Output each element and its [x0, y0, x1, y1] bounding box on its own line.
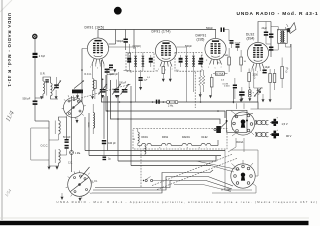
filament DL92 — [199, 143, 211, 149]
svg-text:DF91: DF91 — [162, 136, 169, 139]
gang link dashed 1 — [152, 154, 233, 186]
ground trimmer 2 — [115, 95, 118, 98]
coil IF2 tail — [193, 58, 194, 66]
volume control block — [213, 72, 228, 76]
ground grid cap — [110, 69, 117, 72]
twisted pair 2 — [256, 132, 269, 137]
ground below S2 right — [79, 196, 82, 201]
wire left column verticals to bundle — [85, 86, 131, 166]
socket GT rect outline — [225, 150, 252, 191]
tube DAF91 — [205, 38, 226, 64]
svg-text:C.C.: C.C. — [68, 163, 73, 165]
svg-text:(100pF): (100pF) — [133, 45, 142, 48]
svg-text:24µF: 24µF — [262, 27, 268, 30]
pin numbers DL92 — [251, 71, 265, 74]
svg-text:DK91 (1R5): DK91 (1R5) — [85, 26, 105, 30]
filament DAF91 — [180, 143, 192, 149]
ground above socket 1 — [240, 98, 243, 101]
capacitor aerial coil top — [45, 79, 49, 82]
svg-text:3: 3 — [165, 70, 166, 72]
svg-text:Ω: Ω — [286, 71, 288, 74]
handwriting 1/54 — [4, 188, 13, 198]
coil L1 aerial primary — [40, 72, 46, 94]
ground DF91 — [162, 79, 165, 82]
bottom caption — [57, 200, 319, 204]
label 100pF — [133, 45, 142, 48]
svg-text:DF91 (1T4): DF91 (1T4) — [152, 30, 171, 34]
wire socket2 right returns — [212, 150, 258, 193]
value label 50 — [156, 71, 159, 73]
svg-text:1 MΩ: 1 MΩ — [223, 55, 229, 57]
ground bias — [269, 99, 272, 102]
svg-text:3: 3 — [251, 71, 252, 73]
capacitor 500pF antenna — [23, 98, 38, 105]
capacitor 500pF DAF91 grid — [206, 27, 229, 41]
svg-text:UNDA RADIO - Mod. R 43-1: UNDA RADIO - Mod. R 43-1 — [7, 13, 12, 87]
svg-text:7: 7 — [221, 67, 222, 69]
coil padding label — [93, 64, 95, 96]
capacitor IF side right — [149, 55, 153, 67]
meter 1mA — [68, 96, 81, 172]
wire antenna mid — [34, 57, 36, 100]
value label 10K — [176, 70, 179, 72]
wire IF2 sec down — [193, 71, 195, 92]
wire IF1 pri down — [135, 71, 137, 102]
ground osc 1 — [48, 163, 51, 170]
handwriting 11/4 — [5, 109, 17, 123]
svg-text:1: 1 — [158, 69, 159, 71]
wire socket1 to socket2 link — [228, 138, 244, 152]
wire tuning gang dashed — [70, 84, 131, 101]
coil osc feed vertical — [87, 104, 94, 134]
capacitor rail bypass — [156, 100, 160, 104]
fuse 2Mohm inline — [167, 101, 179, 108]
tube DK91 — [87, 38, 108, 64]
label DL92 (3S4) — [246, 33, 254, 41]
trimmer arrow aerial — [53, 77, 61, 91]
wire DAF91 top cap — [215, 30, 218, 39]
svg-text:PA01A: PA01A — [236, 141, 244, 144]
label 500pF T2 — [185, 45, 192, 48]
wire filament chain — [138, 140, 218, 146]
svg-text:5: 5 — [215, 68, 216, 70]
label O.C.C. — [41, 145, 49, 148]
resistor 70 ohm — [281, 58, 289, 89]
svg-text:1: 1 — [208, 67, 209, 69]
resistor DF91 cathode — [162, 67, 165, 79]
wire top rail B+ — [98, 29, 216, 31]
svg-text:5: 5 — [257, 72, 258, 74]
svg-text:500pF: 500pF — [185, 45, 192, 48]
resistor bias pair 2 — [273, 69, 276, 90]
ground trimmer 1 — [101, 95, 104, 98]
coil hang below box — [145, 146, 146, 154]
capacitor above socket — [239, 87, 244, 98]
label DL92 heater — [202, 136, 209, 139]
label 0,5 M — [223, 84, 229, 86]
wire socket feeds — [233, 88, 258, 109]
svg-text:UNDA RADIO - Mod. R 43-1 -: UNDA RADIO - Mod. R 43-1 - Apparecchio p… — [57, 200, 319, 204]
svg-text:6: 6 — [104, 67, 105, 69]
core slug dark — [72, 81, 84, 94]
label GT17B6 — [221, 189, 232, 192]
svg-text:1,5 V: 1,5 V — [282, 122, 288, 126]
label DAF91 heater — [182, 136, 190, 139]
rotated margin text UNDA RADIO Mod R 43-1 — [7, 13, 12, 87]
wire DK91 top cap to rail — [97, 30, 99, 38]
svg-text:2 Hu.: 2 Hu. — [168, 105, 174, 108]
svg-text:(3S4): (3S4) — [247, 37, 255, 41]
ground above socket 2 — [248, 98, 251, 101]
coil IF winding 2 — [142, 52, 145, 71]
ground aerial coil — [40, 96, 43, 99]
svg-text:6: 6 — [263, 71, 264, 73]
coil IF winding 2 — [192, 52, 195, 71]
capacitor electrolytic right 2 — [269, 47, 273, 51]
label DF91 heater — [162, 136, 169, 139]
trimmer cap osc 3 — [119, 83, 129, 95]
ground output cap — [240, 94, 243, 102]
pickup contacts — [143, 177, 172, 182]
svg-text:50 TKA: 50 TKA — [216, 73, 224, 76]
svg-text:2: 2 — [90, 67, 91, 69]
svg-text:1 Ma.: 1 Ma. — [75, 153, 81, 155]
ground under S1 — [76, 118, 79, 124]
value label 0,1 — [147, 77, 151, 79]
coil IF winding 1 — [134, 52, 137, 71]
ground screen resistor — [117, 95, 120, 98]
resistor filament dropper — [134, 129, 140, 146]
wire DL92 top rail — [258, 22, 271, 43]
wire rail drop x115 — [109, 30, 116, 45]
ground det — [199, 94, 202, 97]
resistor screen dropper — [128, 44, 131, 70]
svg-text:90 V: 90 V — [286, 134, 292, 138]
svg-text:50 KpF: 50 KpF — [63, 137, 71, 139]
pin numbers DAF91 — [208, 67, 222, 70]
gang link dashed 2 — [157, 158, 238, 190]
rotary switch S1 — [62, 95, 86, 119]
ground AF — [209, 95, 212, 98]
label DK91 (1R5) — [85, 26, 105, 30]
wire DAF91 area drop — [201, 92, 226, 118]
svg-text:(1S5): (1S5) — [197, 38, 205, 42]
phone jack — [214, 122, 227, 133]
wire aerial coil leads — [35, 77, 58, 99]
label PA01A — [236, 141, 244, 144]
junction dot grid — [81, 69, 108, 71]
coil L4 osc — [55, 150, 60, 164]
svg-text:O.C.C.: O.C.C. — [84, 73, 92, 76]
svg-text:1µF: 1µF — [144, 80, 148, 82]
svg-text:O.C.C.: O.C.C. — [41, 145, 49, 148]
svg-text:500pF: 500pF — [117, 40, 125, 43]
ground DF91 pin — [169, 67, 172, 83]
pin numbers DF91 — [158, 69, 173, 72]
svg-text:m. Fz.: m. Fz. — [91, 180, 98, 183]
capacitor 500pF screen — [117, 30, 128, 51]
title top right — [237, 11, 319, 17]
svg-text:500pF: 500pF — [206, 27, 213, 30]
wire antenna lower — [35, 105, 49, 121]
coil L3 osc — [55, 121, 60, 135]
wire DL92 cathode drop — [254, 69, 263, 89]
svg-text:440 pF: 440 pF — [108, 142, 116, 145]
wire DK91 anode to IF1 — [109, 47, 136, 52]
resistor 1200 ohm — [248, 69, 259, 89]
capacitor IF side left — [179, 55, 183, 67]
capacitor 3u — [103, 157, 112, 161]
page corner fold — [0, 0, 12, 12]
ground aerial trim — [55, 90, 58, 99]
junction dots rails — [107, 101, 219, 120]
capacitor 440pF — [102, 140, 116, 156]
resistor DAF91 anode load — [223, 48, 230, 72]
capacitor det — [198, 61, 202, 65]
output transformer — [278, 29, 288, 43]
wire antenna down lead — [34, 39, 36, 53]
svg-text:4: 4 — [97, 68, 98, 70]
socket PA01A — [226, 111, 255, 136]
trimmer cap osc — [99, 79, 108, 95]
wire right column — [271, 22, 291, 110]
wire DK91 left column — [82, 49, 88, 103]
pin ticks DL92 — [252, 69, 264, 72]
resistor DAF91 screen — [240, 50, 247, 72]
resistor osc grid leak — [94, 81, 97, 100]
capacitor electrolytic right 1 — [269, 34, 273, 38]
socket GT17B6 — [231, 160, 255, 188]
capacitor osc tracking — [65, 145, 69, 149]
value label 25 — [217, 63, 220, 65]
wire IF2 pri down — [186, 71, 188, 102]
resistor AF grid — [202, 70, 205, 92]
svg-text:beep F: beep F — [107, 74, 114, 76]
tube DF91 — [155, 40, 176, 66]
trimmer cap osc 2 — [112, 80, 121, 95]
svg-text:100 pF: 100 pF — [119, 83, 127, 85]
tube DL92 — [247, 42, 268, 68]
label 90 V — [286, 134, 292, 138]
ground osc 2 — [56, 166, 59, 170]
wire right col to socket — [251, 108, 292, 110]
ground below S2 left — [61, 193, 64, 200]
wire mid rail 2 — [106, 75, 225, 118]
label O.C.C. 2 — [84, 73, 92, 76]
label DAF91 (1S5) — [196, 34, 207, 42]
wire rail drop x134 — [133, 30, 135, 50]
svg-text:DK91: DK91 — [142, 136, 149, 139]
svg-text:G.R.: G.R. — [40, 72, 46, 76]
capacitor 2Kpf — [33, 53, 46, 58]
capacitor 3KpF — [230, 40, 241, 48]
choke above socket — [249, 87, 255, 97]
ground pot — [262, 94, 265, 102]
wire mid rail 3 — [111, 80, 221, 124]
svg-text:DL92: DL92 — [202, 136, 209, 139]
svg-text:14µF: 14µF — [265, 66, 271, 69]
value label 0,5 — [221, 80, 225, 82]
twisted pair 1 — [256, 120, 269, 125]
socket PA01A rect — [227, 110, 247, 132]
ground AVC — [139, 87, 142, 90]
wire mid rail 1 — [102, 60, 259, 109]
punch hole dot — [114, 7, 122, 15]
IF transformer T2 dashed box — [175, 52, 202, 71]
resistor AF coupling — [210, 74, 213, 95]
coil L2 aerial secondary — [47, 81, 52, 96]
wire bottom nested rects — [92, 170, 234, 193]
filament DF91 — [159, 143, 171, 149]
wire DL92 anode to transformer — [266, 43, 271, 45]
pin ticks DK91 — [92, 64, 104, 67]
label 1,5 V — [282, 122, 288, 126]
capacitor 14uF cathode — [263, 66, 271, 73]
rotary switch S2 — [66, 167, 98, 198]
wire transformer leads — [271, 27, 291, 51]
label DK91 heater — [142, 136, 149, 139]
page left edge line — [1, 0, 3, 220]
potentiometer 450 ohm — [254, 88, 262, 97]
svg-text:DAF91: DAF91 — [182, 136, 190, 139]
wire IF1 bottom link — [119, 70, 132, 89]
coil IF winding 1 — [185, 52, 188, 71]
pin numbers DK91 — [90, 67, 105, 70]
filament DK91 — [139, 143, 151, 149]
capacitor AVC cluster — [139, 70, 148, 87]
capacitor coupling DL92 grid — [236, 44, 240, 51]
ground coil pad — [91, 96, 94, 99]
svg-text:500 pF: 500 pF — [23, 98, 31, 101]
plug 1,5V — [270, 117, 279, 127]
wire osc coil links — [49, 117, 67, 166]
svg-text:0.004: 0.004 — [224, 86, 230, 88]
resistor bias pair 1 — [269, 69, 272, 99]
wire DF91 top — [177, 47, 187, 52]
pickup switch dashed — [140, 151, 142, 189]
capacitor grid DK91 — [105, 69, 119, 89]
capacitor IF side right — [199, 55, 203, 67]
junction dots rail1 — [119, 101, 202, 103]
capacitor under DK91 — [107, 65, 114, 77]
capacitor IF side left — [127, 55, 131, 67]
capacitor output 0.004 — [224, 78, 237, 99]
label DF91 (1T4) — [152, 30, 171, 34]
ground slug — [76, 93, 79, 98]
svg-text:2 Kpf: 2 Kpf — [39, 54, 45, 58]
speaker — [286, 23, 296, 34]
plug 90V — [270, 129, 279, 138]
page bottom faint edge — [0, 217, 309, 219]
value label 2M — [206, 60, 208, 62]
bottom black bar — [0, 221, 309, 225]
capacitor 24uF — [262, 22, 269, 45]
antenna — [33, 34, 37, 38]
resistor diode load — [199, 70, 202, 94]
IF transformer T1 dashed box — [126, 52, 154, 71]
wire volume dashed link — [194, 72, 196, 108]
svg-text:7: 7 — [172, 69, 173, 71]
wire bundle horizontals — [85, 151, 225, 166]
oscillator coil bracket — [31, 121, 49, 163]
battery box dashed — [133, 129, 227, 150]
svg-text:UNDA RADIO - Mod. R 43-1: UNDA RADIO - Mod. R 43-1 — [237, 11, 319, 17]
wire bundle right diagonals — [196, 161, 240, 172]
capacitor osc padder — [63, 137, 71, 143]
